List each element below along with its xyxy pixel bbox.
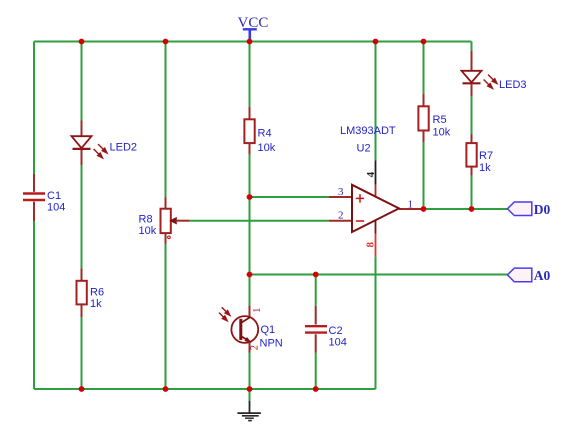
wire: top VCC rail [34,41,472,43]
svg-text:A0: A0 [534,268,551,283]
wire: left vertical above C1 [33,42,35,175]
svg-text:10k: 10k [139,225,157,237]
resistor R7 [466,134,476,176]
R8 wiper arrow [171,218,177,224]
svg-text:R8: R8 [139,214,153,226]
wire: pin2 wire from R8 wiper [189,220,328,222]
R8 wiper position marker [168,236,171,239]
phototransistor Q1 [219,305,263,352]
wire: LED3 branch top corner [471,42,473,52]
junction top rail / LED2 branch [79,39,85,45]
wire: below C2 [315,353,317,389]
svg-text:3: 3 [338,186,344,198]
wire: LED2 branch above LED2 [81,42,83,121]
svg-text:C1: C1 [47,190,61,202]
wire: R4 branch above R4 [249,42,251,107]
junction top rail / U2 pin4 [373,39,379,45]
junction bottom rail / R6 [79,386,85,392]
svg-text:C2: C2 [329,325,343,337]
svg-text:R6: R6 [90,287,104,299]
junction output node / R7 [469,206,475,212]
power flag VCC [238,15,269,42]
wire: between LED2 and R6 [81,165,83,268]
junction A0 node / C2 [313,272,319,278]
Q1 light arrows [219,307,230,321]
wire: below R7 to output node [471,176,473,209]
svg-text:R5: R5 [433,114,447,126]
ground symbol [237,389,261,421]
port D0 [507,202,550,217]
wire: A0 node down to Q1 collector [249,275,251,306]
resistor R4 [244,107,254,155]
capacitor C1 [23,174,45,221]
potentiometer R8 [161,197,190,244]
LED LED3 [462,51,498,96]
wire: below R5 to output node [423,142,425,209]
svg-text:10k: 10k [433,127,451,139]
svg-text:R4: R4 [258,128,272,140]
wire: comparator output to D0 [422,208,508,210]
wire: R5 branch above R5 [423,42,425,94]
svg-text:4: 4 [365,171,377,177]
svg-text:LED2: LED2 [110,142,138,154]
junction bottom rail / ground [247,386,253,392]
svg-text:R7: R7 [479,150,493,162]
svg-text:1: 1 [252,308,263,313]
svg-text:104: 104 [329,337,347,349]
junction bottom rail / C2 [313,386,319,392]
wire: pin3 input wire [250,196,329,198]
wire: below Q1 emitter [249,353,251,390]
svg-text:2: 2 [338,210,344,222]
U2 pin 3 stub [329,196,352,198]
resistor R5 [418,94,428,142]
U2 pin 1 stub [399,208,422,210]
wire: left vertical below C1 [33,221,35,389]
junction at VCC node [247,39,253,45]
junction top rail / R5 branch [421,39,427,45]
capacitor C2 [305,306,327,353]
wire: R4 bottom to A0 node [249,154,251,274]
junction output node / R5 [421,206,427,212]
svg-text:NPN: NPN [260,338,283,350]
svg-text:1k: 1k [90,298,102,310]
svg-text:D0: D0 [534,202,551,217]
U2 pin 4 stub [375,160,377,184]
junction R4 bottom / pin3 wire [247,194,253,200]
svg-text:Q1: Q1 [261,324,276,336]
junction top rail / R8 branch [163,39,169,45]
U2 plus marker [356,194,364,202]
svg-text:LM393ADT: LM393ADT [340,125,396,137]
resistor R6 [77,268,87,317]
svg-text:1k: 1k [479,162,491,174]
svg-text:8: 8 [365,242,377,248]
wire: A0 horizontal wire [250,274,508,276]
wire: R8 branch above pot [165,42,167,198]
junction bottom rail / R8 [163,386,169,392]
svg-text:10k: 10k [258,142,276,154]
wire: below R6 [81,317,83,389]
wire: U2 pin4 supply wire [375,42,377,161]
U2 pin 2 stub [329,220,352,222]
wire: U2 pin8 ground wire [375,257,377,389]
svg-text:1: 1 [408,198,414,210]
wire: C2 branch above C2 [315,275,317,306]
wire: between LED3 and R7 [471,96,473,134]
junction A0 node / Q1 [247,272,253,278]
U2 pin 8 stub [375,220,377,233]
port A0 [507,268,550,283]
U2 minus marker [356,220,364,222]
wire: bottom ground rail [34,388,376,390]
svg-text:VCC: VCC [238,15,269,31]
svg-text:U2: U2 [357,143,371,155]
wire: below R8 pot [165,244,167,389]
U2 triangle body [352,185,399,232]
op-amp U2 LM393ADT [329,160,422,256]
svg-text:104: 104 [47,202,65,214]
svg-text:LED3: LED3 [499,79,527,91]
LED LED2 [72,121,108,166]
